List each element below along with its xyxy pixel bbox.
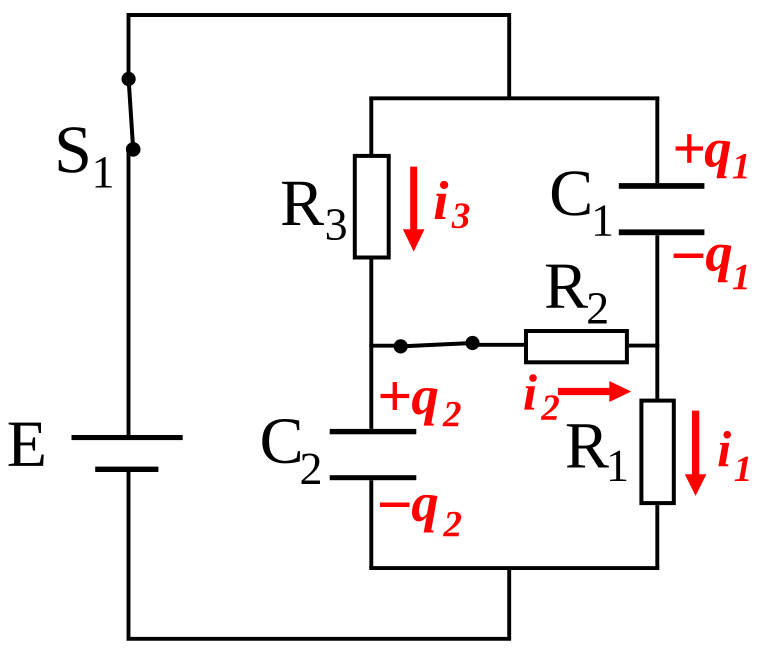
wire inner top <box>369 96 659 100</box>
wire right lower (R1 to inner bottom) <box>655 505 659 568</box>
capacitor C2 <box>330 429 417 480</box>
wire outer top loop <box>129 15 510 98</box>
wire right branch top <box>655 98 659 183</box>
capacitor C1 <box>619 183 705 235</box>
wire left middle (switch to battery) <box>127 149 131 435</box>
resistor R1 <box>641 401 673 504</box>
label i2 <box>524 374 559 420</box>
label i1 <box>718 431 748 481</box>
current arrow i2 <box>558 381 631 402</box>
charge label +q2 <box>381 382 461 426</box>
charge label +q1 <box>676 134 747 178</box>
wire left lower + outer bottom + right riser <box>129 472 510 639</box>
current arrow i1 <box>685 411 707 496</box>
wire C2 branch bottom <box>369 480 373 568</box>
switch S1 <box>122 72 141 157</box>
wire middle left nub <box>369 344 400 348</box>
label C1 <box>552 171 611 235</box>
wire R3 branch bottom <box>369 260 373 346</box>
charge label -q2 <box>380 495 461 536</box>
resistor R3 <box>355 156 389 258</box>
label R1 <box>567 424 626 481</box>
label S1 <box>59 127 112 187</box>
battery E <box>72 435 183 472</box>
switch S2 (middle) <box>394 336 480 354</box>
wire inner bottom <box>369 566 659 570</box>
wire right middle (C1 to R1) <box>655 235 659 398</box>
label R2 <box>546 265 607 324</box>
wire C2 branch top <box>369 346 373 429</box>
charge label -q1 <box>674 245 747 290</box>
wire middle (switch to R2) <box>473 343 527 347</box>
label C2 <box>262 419 320 484</box>
wire R3 branch top <box>369 98 373 154</box>
current arrow i3 <box>403 167 425 252</box>
wire middle (R2 to right branch) <box>629 344 659 348</box>
label E <box>9 423 44 466</box>
label R3 <box>282 182 346 240</box>
resistor R2 <box>526 331 627 362</box>
label i3 <box>435 181 470 228</box>
